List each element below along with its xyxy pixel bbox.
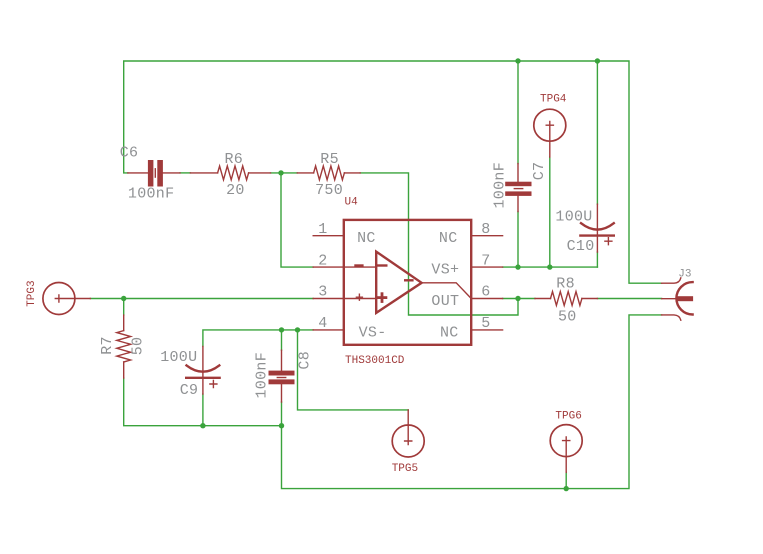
svg-text:TPG3: TPG3 bbox=[26, 280, 38, 306]
wire pin4 node down and across to TPG5 bbox=[298, 330, 409, 410]
svg-text:50: 50 bbox=[558, 308, 577, 325]
wire C7 riser lower bbox=[517, 212, 519, 268]
wire node to pin 2 bbox=[281, 173, 313, 267]
svg-text:TPG6: TPG6 bbox=[555, 410, 581, 422]
wire R6 to node at R5 bbox=[271, 172, 298, 174]
wire TPG6 stem lower bbox=[565, 472, 567, 488]
pin 2 stub bbox=[313, 266, 344, 268]
wire C8 top bbox=[281, 330, 283, 350]
svg-text:100U: 100U bbox=[160, 349, 197, 366]
svg-text:100nF: 100nF bbox=[253, 352, 270, 399]
svg-text:3: 3 bbox=[318, 284, 327, 301]
svg-text:C6: C6 bbox=[120, 145, 139, 162]
wire C9 bottom bbox=[202, 394, 204, 426]
node TPG4 pin7 bbox=[547, 264, 552, 269]
svg-text:C7: C7 bbox=[531, 162, 548, 181]
pin 4 stub bbox=[313, 329, 344, 331]
plus mark C9 bbox=[210, 381, 217, 388]
pin 8 stub bbox=[471, 235, 502, 237]
svg-text:5: 5 bbox=[481, 315, 490, 332]
node TPG5 branch bbox=[295, 327, 300, 332]
node TPG6 gnd bbox=[564, 486, 569, 491]
resistor R7 bbox=[117, 315, 131, 378]
svg-text:OUT: OUT bbox=[431, 293, 459, 310]
node R6/R5 bbox=[278, 170, 283, 175]
capacitor C7 bbox=[505, 164, 531, 212]
wire pin 7 row bbox=[503, 266, 598, 268]
node C8 pin4 bbox=[279, 327, 284, 332]
svg-text:THS3001CD: THS3001CD bbox=[345, 355, 405, 367]
svg-text:R7: R7 bbox=[99, 336, 116, 355]
svg-text:VS+: VS+ bbox=[431, 261, 459, 278]
svg-text:VS-: VS- bbox=[359, 325, 387, 342]
wire mid rail down to bottom rail across to J3 bottom bbox=[282, 315, 662, 489]
capacitor C6 bbox=[128, 160, 180, 187]
wire pin 6 OUT to R8 bbox=[503, 298, 535, 300]
capacitor C10 (polarized) bbox=[580, 204, 613, 252]
pin 7 stub bbox=[471, 266, 502, 268]
testpoint TPG4 bbox=[534, 109, 566, 157]
plus marker inside triangle bbox=[377, 292, 388, 303]
svg-text:6: 6 bbox=[481, 284, 490, 301]
svg-text:100nF: 100nF bbox=[128, 186, 175, 203]
capacitor C8 bbox=[269, 350, 295, 402]
node C7 pin7 bbox=[515, 264, 520, 269]
wire node to R7 top bbox=[123, 299, 125, 316]
capacitor C9 (polarized) bbox=[186, 346, 219, 394]
svg-text:100nF: 100nF bbox=[491, 162, 508, 209]
resistor R5 bbox=[297, 166, 360, 180]
wire TPG3 to pin 3 bbox=[90, 298, 313, 300]
svg-text:750: 750 bbox=[315, 182, 343, 199]
wire R8 to J3 center bbox=[597, 298, 661, 300]
svg-text:8: 8 bbox=[481, 221, 490, 238]
connector J3 bbox=[662, 278, 694, 320]
svg-text:R6: R6 bbox=[225, 151, 244, 168]
svg-text:NC: NC bbox=[357, 230, 376, 247]
svg-text:7: 7 bbox=[481, 252, 490, 269]
pin 5 stub bbox=[471, 329, 502, 331]
svg-text:C10: C10 bbox=[567, 238, 595, 255]
minus marker above output bbox=[405, 279, 412, 281]
plus mark C10 bbox=[605, 238, 612, 245]
svg-text:R8: R8 bbox=[556, 276, 575, 293]
svg-text:4: 4 bbox=[318, 315, 327, 332]
minus marker inside triangle bbox=[378, 264, 386, 266]
svg-text:50: 50 bbox=[130, 337, 147, 356]
node OUT/R8 bbox=[515, 296, 520, 301]
svg-text:U4: U4 bbox=[345, 196, 359, 208]
svg-text:R5: R5 bbox=[320, 151, 339, 168]
svg-text:TPG5: TPG5 bbox=[392, 463, 418, 475]
pin 6 stub bbox=[471, 298, 502, 300]
wire C10 riser upper bbox=[596, 61, 598, 204]
op-amp output line to pin 6 bbox=[422, 283, 472, 299]
node C10 top rail bbox=[595, 58, 600, 63]
wire pin 4 row to C9 bbox=[203, 330, 313, 347]
node C7 top rail bbox=[515, 58, 520, 63]
wire C10 riser lower bbox=[596, 252, 598, 267]
testpoint TPG3 bbox=[43, 283, 90, 315]
pin 3 stub bbox=[313, 298, 344, 300]
plus marker on pin 3 line bbox=[356, 294, 362, 300]
op-amp U4 body bbox=[344, 220, 471, 345]
testpoint TPG5 bbox=[392, 410, 424, 457]
wire C8 bottom bbox=[281, 402, 283, 426]
svg-text:J3: J3 bbox=[678, 269, 691, 281]
svg-text:TPG4: TPG4 bbox=[540, 93, 567, 105]
wire C7 riser upper bbox=[517, 61, 519, 164]
testpoint TPG6 bbox=[550, 425, 582, 473]
svg-text:20: 20 bbox=[226, 182, 245, 199]
resistor R8 bbox=[535, 292, 597, 306]
svg-text:NC: NC bbox=[440, 325, 459, 342]
svg-text:2: 2 bbox=[318, 252, 327, 269]
op-amp internal input lines bbox=[344, 267, 376, 298]
op-amp U4 triangle bbox=[376, 252, 421, 313]
wire C6 to R6 bbox=[180, 172, 190, 174]
node C8 gnd bbox=[279, 423, 284, 428]
svg-text:C9: C9 bbox=[180, 382, 199, 399]
pin 1 stub bbox=[313, 235, 344, 237]
wire R7 bottom to mid rail bbox=[124, 378, 282, 426]
wire top rail from C6 left corner up across to J3 top bbox=[124, 61, 662, 283]
minus marker on pin 2 line bbox=[356, 264, 363, 266]
resistor R6 bbox=[190, 166, 270, 180]
wire TPG4 stem lower bbox=[549, 157, 551, 267]
node C9 gnd bbox=[200, 423, 205, 428]
node TPG3/R7 bbox=[121, 296, 126, 301]
svg-text:C8: C8 bbox=[297, 351, 314, 370]
svg-text:100U: 100U bbox=[555, 208, 592, 225]
svg-text:NC: NC bbox=[439, 230, 458, 247]
svg-text:1: 1 bbox=[318, 221, 327, 238]
wire R5 right through U4 body down to OUT node bbox=[360, 173, 518, 315]
